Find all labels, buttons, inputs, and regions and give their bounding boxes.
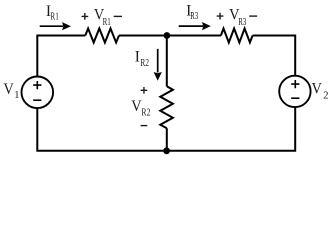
node top (junction dot): [164, 32, 171, 39]
label + V_R3 -: [217, 13, 224, 20]
svg-text:R3: R3: [238, 17, 246, 28]
V1 plus sign: [33, 81, 41, 89]
V2 minus sign: [291, 97, 299, 99]
svg-text:R2: R2: [141, 108, 150, 119]
wire top-middle segment: [119, 35, 221, 37]
wire right-bottom segment: [37, 107, 295, 151]
arrow I_R2: [157, 49, 159, 73]
svg-text:V: V: [312, 80, 323, 97]
node bottom (junction dot): [163, 147, 170, 154]
label + V_R1 -: [82, 13, 89, 20]
resistor R1: [85, 29, 119, 43]
svg-text:R3: R3: [190, 11, 198, 22]
svg-text:R1: R1: [103, 17, 111, 28]
wire top-left segment: [37, 36, 85, 77]
svg-text:2: 2: [323, 90, 328, 101]
svg-text:R1: R1: [50, 11, 58, 22]
source V1: [22, 77, 54, 109]
resistor R2: [160, 86, 173, 128]
V2 plus sign: [291, 80, 299, 88]
arrow I_R3: [179, 25, 203, 27]
svg-text:V: V: [3, 81, 14, 98]
wire middle vertical top: [166, 36, 168, 87]
arrow I_R1: [40, 25, 63, 27]
wire top-right segment: [253, 36, 296, 76]
svg-text:R2: R2: [140, 58, 149, 69]
resistor R3: [221, 29, 253, 43]
svg-text:I: I: [135, 49, 140, 66]
label + V_R2 -: [141, 87, 148, 94]
wire middle vertical bottom: [166, 128, 168, 151]
source V2: [279, 76, 310, 107]
svg-text:1: 1: [14, 90, 19, 101]
V1 minus sign: [33, 99, 41, 101]
